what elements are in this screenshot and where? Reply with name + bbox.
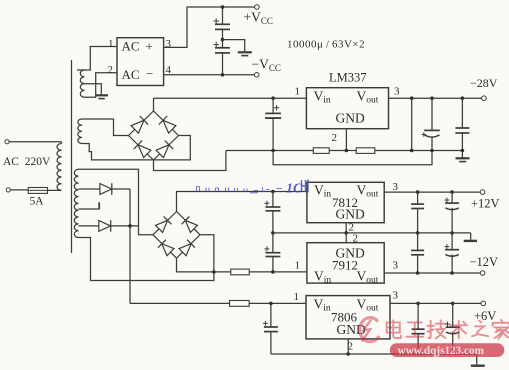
node pin2 mid xyxy=(344,231,348,235)
watermark char dian xyxy=(387,320,401,338)
svg-text:AC 220V: AC 220V xyxy=(3,156,51,168)
wire 7912 out to -12V xyxy=(384,272,480,274)
transformer secondary winding W2 xyxy=(78,119,82,143)
node C6 gnd rail xyxy=(271,231,275,235)
svg-text:1C: 1C xyxy=(286,182,303,197)
node cap C9 top xyxy=(450,190,454,194)
wire gnd rail to ground xyxy=(470,233,472,240)
rail B return loop xyxy=(273,151,432,165)
node cap C13 top xyxy=(416,302,420,306)
watermark char shu xyxy=(450,321,467,339)
capacitor C6 xyxy=(264,192,280,233)
watermark blue glyphs xyxy=(286,182,303,197)
rail A feedback/0V xyxy=(226,150,463,152)
svg-text:+6V: +6V xyxy=(474,309,496,323)
node cap C3 bottom xyxy=(271,149,275,153)
transformer primary winding xyxy=(57,144,62,191)
node junction between caps xyxy=(221,38,225,42)
terminal +Vcc xyxy=(255,5,260,10)
watermark red badge xyxy=(390,343,505,357)
bridge1 diode bottom-right xyxy=(156,141,173,158)
node sense top xyxy=(410,96,414,100)
wire 7806 out to +6V xyxy=(390,302,481,304)
transformer secondary winding W3 xyxy=(74,169,78,237)
bridge2 diamond xyxy=(153,212,200,259)
svg-text:−: − xyxy=(146,66,153,81)
node cap C12 top xyxy=(269,302,273,306)
svg-text:Vout: Vout xyxy=(357,183,379,200)
resistor R4 xyxy=(230,301,307,307)
node cap C10 bottom xyxy=(416,271,420,275)
terminal AC input bottom xyxy=(6,188,28,192)
terminal -Vcc xyxy=(254,73,259,78)
wire bridge1 bottom to rail A xyxy=(154,151,226,171)
bridge1 diode top-right xyxy=(159,116,176,133)
svg-text:1: 1 xyxy=(295,86,301,98)
capacitor C4 electrolytic xyxy=(422,98,440,150)
resistor R1 xyxy=(313,148,329,154)
capacitor C5 xyxy=(455,98,469,157)
svg-text:Vout: Vout xyxy=(357,269,379,286)
wire W3 tap D1 xyxy=(79,188,100,190)
svg-text:3: 3 xyxy=(393,290,399,302)
capacitor C9 electrolytic xyxy=(444,192,459,233)
node cap C3 top xyxy=(271,96,275,100)
node junction +Vcc rail xyxy=(221,5,225,9)
wire junction to ground xyxy=(223,40,245,52)
terminal +12V xyxy=(480,190,485,195)
svg-text:1: 1 xyxy=(294,291,300,303)
capacitor C7 xyxy=(264,233,280,272)
transformer secondary winding W1 xyxy=(80,70,84,97)
capacitor C11 electrolytic xyxy=(444,233,459,273)
svg-text:3: 3 xyxy=(166,38,172,50)
wire bridge2 top to 7812 Vin xyxy=(177,192,307,212)
bridge1 diode bottom-left xyxy=(134,141,151,158)
capacitor C10 xyxy=(411,233,424,273)
wire W2 bottom staircase to bridge1 right xyxy=(82,136,190,160)
bridge2 diode top-right xyxy=(182,216,198,232)
svg-text:2: 2 xyxy=(353,233,359,245)
capacitor C8 xyxy=(411,192,424,233)
svg-text:+: + xyxy=(146,39,153,54)
svg-text:1: 1 xyxy=(108,38,114,50)
capacitor C3 xyxy=(265,98,281,150)
node cap C4 bottom xyxy=(430,149,434,153)
node sense bottom xyxy=(410,149,414,153)
wire W2 top to bridge1 left xyxy=(82,119,129,136)
svg-text:10000μ/63V×2: 10000μ/63V×2 xyxy=(287,39,365,51)
wire bottom rail to ground xyxy=(476,354,478,365)
transformer core xyxy=(71,60,73,253)
wire output sense drop xyxy=(411,98,413,150)
svg-text:5A: 5A xyxy=(30,196,45,208)
bridge2 diode top-left xyxy=(156,216,172,232)
node cap C4 top xyxy=(430,96,434,100)
node cap C8 bottom xyxy=(416,231,420,235)
svg-text:Vin: Vin xyxy=(314,183,331,200)
svg-text:LM337: LM337 xyxy=(329,71,367,85)
bridge2 diode bottom-left xyxy=(158,240,174,256)
capacitor C14 electrolytic xyxy=(445,303,460,354)
wire bridge2 bottom to R3 xyxy=(177,258,231,272)
node cap C5 rail xyxy=(461,149,465,153)
node cap C8 top xyxy=(416,190,420,194)
block 7812 xyxy=(307,182,384,222)
diode D1 xyxy=(100,183,130,195)
wire pin2 7812 xyxy=(345,223,347,233)
terminal -28V xyxy=(482,96,487,101)
capacitor C2 10000u xyxy=(214,40,231,75)
block 7912 xyxy=(307,243,384,283)
svg-text:7912: 7912 xyxy=(332,258,358,273)
wire W1 center tap xyxy=(85,84,102,95)
ground Vcc midpoint xyxy=(238,52,252,55)
wire W3 bottom to bridge2 right xyxy=(79,235,214,281)
svg-text:3: 3 xyxy=(393,181,399,193)
svg-text:AC: AC xyxy=(122,39,140,54)
terminal -12V xyxy=(480,271,485,276)
ground mid rail xyxy=(464,240,477,242)
svg-text:−28V: −28V xyxy=(470,76,498,90)
capacitor C12 xyxy=(263,303,278,354)
block LM337 xyxy=(306,88,388,129)
svg-text:+12V: +12V xyxy=(471,197,500,211)
wire pin3 to +Vcc rail xyxy=(164,7,255,47)
terminal AC input top xyxy=(5,140,62,144)
svg-text:2: 2 xyxy=(108,64,114,76)
resistor R2 xyxy=(356,148,375,154)
wire D1 D2 common cathode xyxy=(129,189,131,303)
node pin2 7806 rail xyxy=(346,352,350,356)
terminal +6V xyxy=(481,301,486,306)
wire primary top xyxy=(61,142,63,144)
svg-text:−12V: −12V xyxy=(470,255,499,269)
bridge2 diode bottom-right xyxy=(179,240,195,256)
wire pin4 to -Vcc rail xyxy=(164,74,255,76)
ground -28V filter xyxy=(456,158,470,161)
svg-text:−VCC: −VCC xyxy=(252,57,281,74)
watermark red logo swirl xyxy=(360,318,379,342)
node pin2 junction xyxy=(345,149,349,153)
wire 7812 out to +12V xyxy=(384,191,480,193)
node D2 junction xyxy=(128,224,132,228)
watermark blue scribbles xyxy=(197,187,283,193)
svg-text:AC: AC xyxy=(122,67,140,82)
wire pin2 7912 xyxy=(345,233,347,243)
wire common cathode to R4 xyxy=(130,302,230,304)
node cap C11 bottom xyxy=(450,271,454,275)
node cap C9 bottom xyxy=(450,231,454,235)
watermark char gong xyxy=(406,322,423,336)
node crossing at 213.9 xyxy=(212,270,216,274)
svg-text:Vin: Vin xyxy=(314,89,331,106)
svg-text:1: 1 xyxy=(295,260,301,272)
watermark char zhi xyxy=(472,321,488,337)
svg-text:Vin: Vin xyxy=(314,269,331,286)
svg-text:+VCC: +VCC xyxy=(244,10,273,27)
bridge1 diamond xyxy=(129,111,179,160)
node cap C5 top xyxy=(461,96,465,100)
svg-text:Vin: Vin xyxy=(314,297,331,314)
svg-text:www.dqjs123.com: www.dqjs123.com xyxy=(398,345,485,357)
wire pin2 7806 to bottom rail xyxy=(271,339,477,354)
block 7806 xyxy=(306,296,390,339)
fuse F1 5A xyxy=(28,188,62,194)
wire LM337 out to -28V xyxy=(389,97,482,99)
watermark char jia xyxy=(493,320,509,339)
capacitor C13 xyxy=(412,303,425,354)
wire W3 top to bridge2 left xyxy=(79,169,154,235)
wire pin2 LM337 xyxy=(345,129,347,151)
node cap C6 top xyxy=(271,190,275,194)
resistor R3 xyxy=(231,269,307,275)
node cap C14 top xyxy=(451,302,455,306)
svg-text:3: 3 xyxy=(393,260,399,272)
rectifier module AC box xyxy=(117,38,164,86)
svg-text:Vout: Vout xyxy=(357,89,379,106)
svg-text:3: 3 xyxy=(394,86,400,98)
node C7 bottom xyxy=(271,270,275,274)
wire W3 center tap with tick xyxy=(79,202,100,209)
ground 7806 xyxy=(471,365,485,367)
gnd rail mid xyxy=(273,232,471,234)
wire W3 tap D2 xyxy=(79,225,99,227)
ground W1 tap xyxy=(95,95,108,98)
svg-text:GND: GND xyxy=(336,111,365,126)
svg-text:GND: GND xyxy=(336,207,365,222)
capacitor C1 10000u xyxy=(214,7,231,40)
node junction -Vcc rail xyxy=(221,73,225,77)
svg-text:Vout: Vout xyxy=(357,297,379,314)
diode D2 xyxy=(99,220,139,232)
watermark char ji xyxy=(427,320,445,338)
wire W1 bottom to pin2 xyxy=(85,73,118,97)
wire W1 top to pin1 xyxy=(77,47,117,71)
bridge1 diode top-left xyxy=(131,116,148,133)
svg-text:2: 2 xyxy=(332,132,338,144)
wire bridge1 top to LM337 Vin xyxy=(154,98,307,111)
